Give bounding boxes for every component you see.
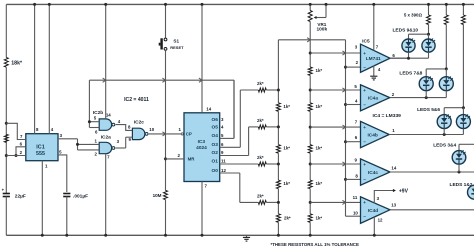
svg-text:1k*: 1k* bbox=[316, 215, 323, 220]
svg-text:1k*: 1k* bbox=[316, 146, 323, 151]
svg-text:IC1: IC1 bbox=[36, 144, 44, 150]
svg-text:13: 13 bbox=[391, 202, 396, 207]
svg-text:LEDS 9&10: LEDS 9&10 bbox=[393, 28, 419, 34]
svg-text:O4: O4 bbox=[211, 133, 218, 139]
svg-text:+: + bbox=[363, 200, 366, 205]
svg-text:12: 12 bbox=[378, 217, 383, 222]
svg-text:IC5: IC5 bbox=[362, 39, 370, 45]
svg-text:1k*: 1k* bbox=[316, 68, 323, 73]
svg-text:−: − bbox=[363, 177, 366, 182]
svg-text:IC2a: IC2a bbox=[101, 134, 111, 140]
svg-text:RESET: RESET bbox=[170, 45, 184, 50]
svg-text:2k*: 2k* bbox=[257, 155, 264, 160]
svg-text:O2: O2 bbox=[211, 150, 218, 156]
svg-text:−: − bbox=[363, 102, 366, 107]
svg-text:18k*: 18k* bbox=[11, 61, 23, 67]
svg-text:+9V: +9V bbox=[399, 188, 409, 194]
svg-text:IC4a: IC4a bbox=[368, 96, 378, 102]
svg-text:IC4 = LM339: IC4 = LM339 bbox=[372, 113, 401, 119]
svg-text:10: 10 bbox=[149, 127, 154, 132]
svg-text:12: 12 bbox=[221, 168, 226, 173]
svg-text:IC2 = 4011: IC2 = 4011 bbox=[124, 97, 149, 103]
svg-text:1k*: 1k* bbox=[316, 181, 323, 186]
svg-text:S1: S1 bbox=[173, 38, 179, 43]
svg-text:LM741: LM741 bbox=[366, 56, 381, 62]
svg-text:1k*: 1k* bbox=[283, 146, 290, 151]
svg-text:1k*: 1k* bbox=[283, 181, 290, 186]
svg-text:IC4b: IC4b bbox=[367, 132, 377, 138]
svg-text:5 x 390Ω: 5 x 390Ω bbox=[404, 13, 423, 18]
svg-text:1k*: 1k* bbox=[283, 104, 290, 109]
svg-text:555: 555 bbox=[36, 151, 45, 157]
svg-text:LEDS 7&8: LEDS 7&8 bbox=[399, 71, 422, 77]
svg-text:IC4c: IC4c bbox=[368, 170, 378, 176]
svg-text:IC2c: IC2c bbox=[134, 120, 144, 126]
svg-text:11: 11 bbox=[221, 159, 226, 164]
svg-text:−: − bbox=[363, 140, 366, 145]
svg-text:CP: CP bbox=[186, 132, 192, 137]
svg-text:2k*: 2k* bbox=[257, 81, 264, 86]
svg-text:IC3: IC3 bbox=[198, 139, 206, 145]
svg-text:14: 14 bbox=[391, 166, 396, 171]
svg-text:100k: 100k bbox=[316, 27, 327, 33]
svg-text:IC4d: IC4d bbox=[368, 208, 378, 214]
svg-text:VR1: VR1 bbox=[317, 22, 326, 27]
svg-text:O1: O1 bbox=[211, 159, 218, 165]
svg-text:14: 14 bbox=[206, 107, 211, 112]
svg-text:11: 11 bbox=[353, 195, 358, 200]
svg-text:2k*: 2k* bbox=[257, 118, 264, 123]
svg-text:22µF: 22µF bbox=[15, 193, 26, 199]
svg-text:*THESE RESISTORS ALL 1% TOLERA: *THESE RESISTORS ALL 1% TOLERANCE bbox=[271, 242, 359, 247]
svg-text:1k*: 1k* bbox=[316, 104, 323, 109]
svg-text:+: + bbox=[363, 88, 366, 93]
svg-text:2k*: 2k* bbox=[257, 193, 264, 198]
svg-text:MR: MR bbox=[188, 157, 196, 162]
svg-text:14: 14 bbox=[106, 112, 111, 117]
svg-text:LEDS 5&6: LEDS 5&6 bbox=[417, 107, 440, 113]
svg-text:O3: O3 bbox=[211, 142, 218, 148]
svg-text:.001µF: .001µF bbox=[73, 193, 88, 199]
svg-text:10M: 10M bbox=[153, 193, 162, 198]
svg-text:4024: 4024 bbox=[196, 145, 207, 151]
svg-text:10: 10 bbox=[353, 210, 358, 215]
svg-text:+: + bbox=[363, 51, 366, 56]
svg-text:+: + bbox=[363, 162, 366, 167]
svg-text:+: + bbox=[363, 125, 366, 130]
svg-text:O0: O0 bbox=[211, 168, 218, 174]
svg-text:O5: O5 bbox=[211, 125, 218, 131]
svg-text:−: − bbox=[363, 65, 366, 70]
svg-text:−: − bbox=[363, 214, 366, 219]
svg-text:LEDS 3&4: LEDS 3&4 bbox=[433, 142, 456, 148]
svg-text:O6: O6 bbox=[211, 117, 218, 123]
svg-text:2k*: 2k* bbox=[284, 216, 291, 221]
